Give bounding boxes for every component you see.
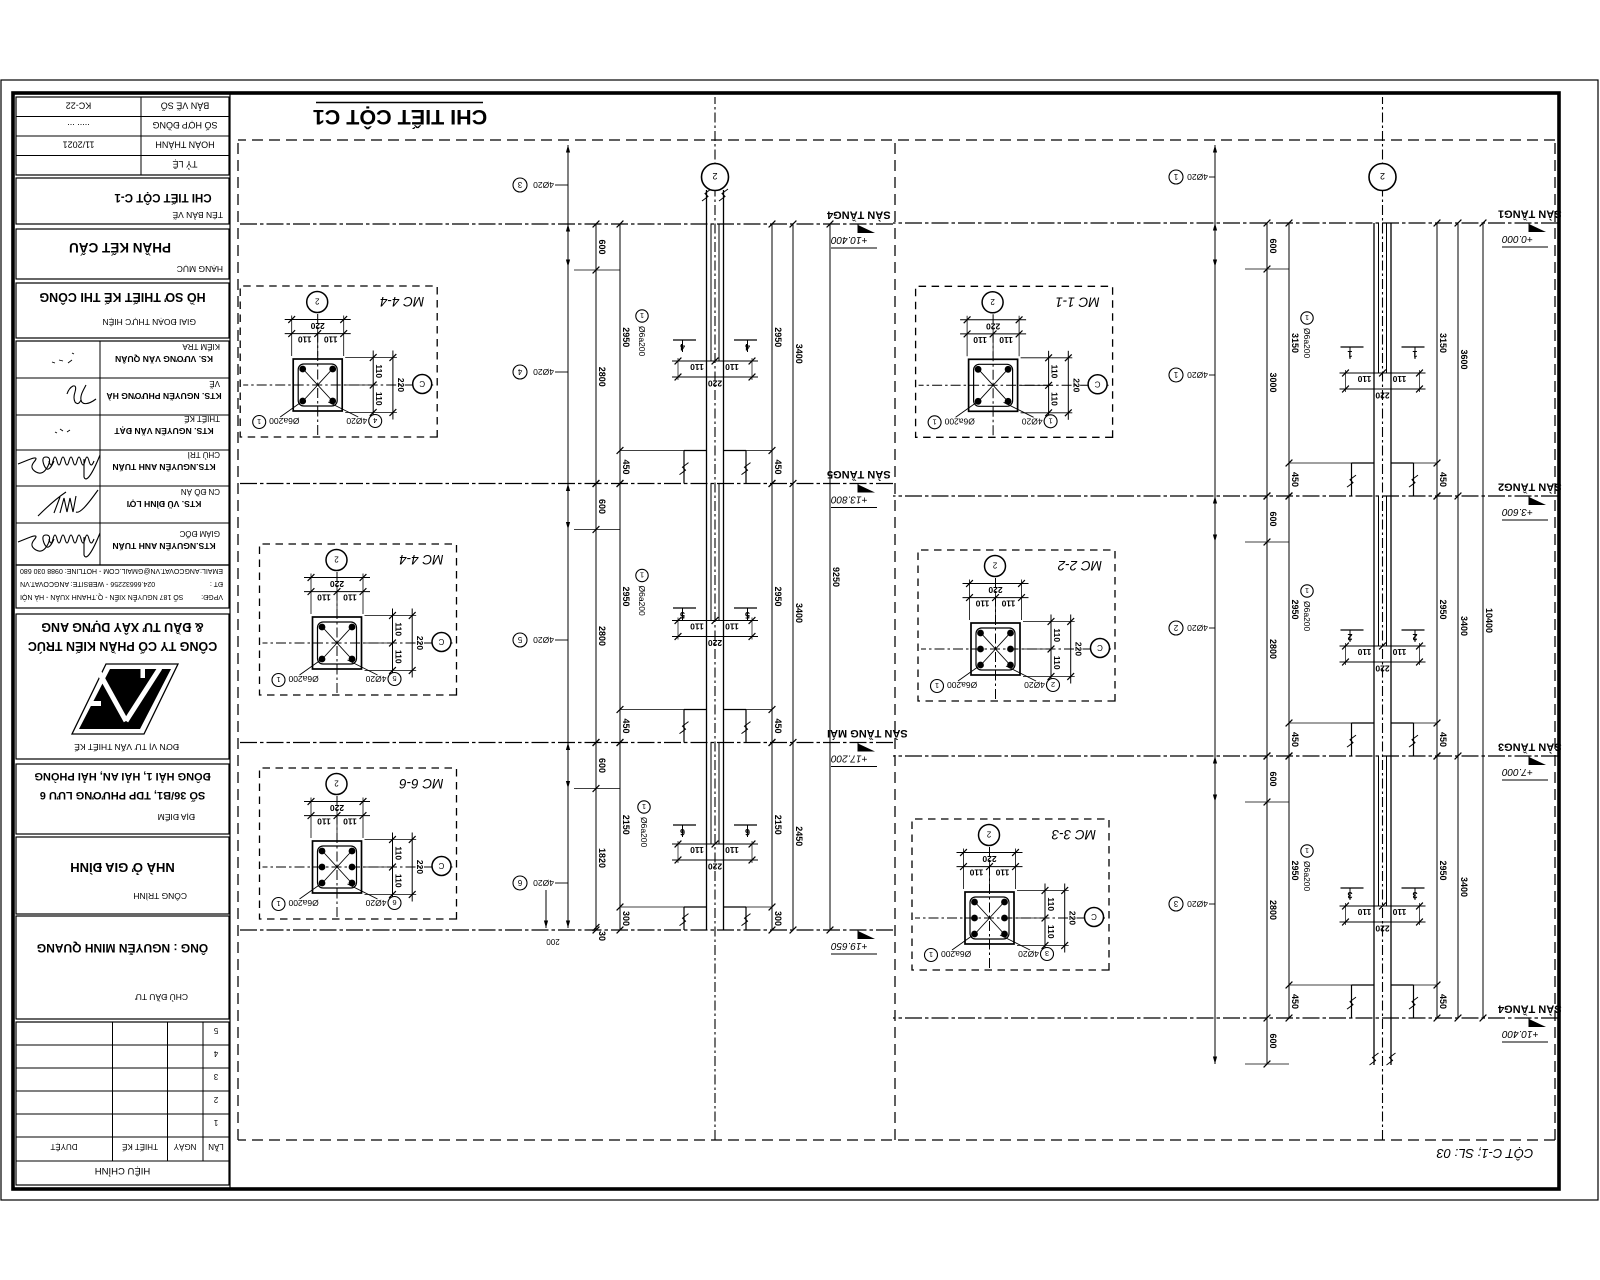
svg-text:600: 600 xyxy=(1268,238,1278,253)
svg-text:220: 220 xyxy=(330,803,344,813)
svg-text:110: 110 xyxy=(690,622,704,632)
svg-text:110: 110 xyxy=(725,845,739,855)
svg-text:4Ø20: 4Ø20 xyxy=(1022,416,1043,426)
svg-text:220: 220 xyxy=(1068,911,1078,925)
svg-text:CÔNG TY CỔ PHẦN KIẾN TRÚC: CÔNG TY CỔ PHẦN KIẾN TRÚC xyxy=(28,639,217,654)
svg-text:4Ø20: 4Ø20 xyxy=(1024,680,1045,690)
svg-text:ĐƠN VỊ TƯ VẤN THIẾT KẾ: ĐƠN VỊ TƯ VẤN THIẾT KẾ xyxy=(74,742,179,752)
svg-text:1820: 1820 xyxy=(597,848,607,868)
svg-text:1: 1 xyxy=(276,675,280,684)
svg-text:Ø6a200: Ø6a200 xyxy=(944,416,975,426)
svg-text:MC 4-4: MC 4-4 xyxy=(380,294,424,309)
svg-text:+0.000: +0.000 xyxy=(1502,233,1533,244)
svg-text:Ø6a200: Ø6a200 xyxy=(639,817,649,848)
svg-text:2150: 2150 xyxy=(621,815,631,835)
svg-text:CHỦ ĐẦU TƯ: CHỦ ĐẦU TƯ xyxy=(135,992,188,1003)
svg-text:1: 1 xyxy=(1173,172,1178,181)
svg-text:220: 220 xyxy=(1375,391,1389,401)
svg-text:110: 110 xyxy=(690,362,704,372)
svg-text:4Ø20: 4Ø20 xyxy=(533,635,554,645)
svg-text:..... ...: ..... ... xyxy=(67,122,90,132)
svg-text:110: 110 xyxy=(317,593,331,603)
svg-text:5: 5 xyxy=(517,635,522,644)
svg-text:3: 3 xyxy=(1347,890,1352,900)
svg-text:+10.400: +10.400 xyxy=(831,234,868,245)
svg-text:SÀN TẦNG5: SÀN TẦNG5 xyxy=(827,468,891,481)
svg-text:C: C xyxy=(1097,643,1103,652)
svg-text:+7.000: +7.000 xyxy=(1502,766,1533,777)
svg-text:600: 600 xyxy=(597,758,607,773)
svg-text:220: 220 xyxy=(988,585,1002,595)
svg-text:KTS. NGUYỄN PHƯƠNG HÀ: KTS. NGUYỄN PHƯƠNG HÀ xyxy=(106,391,221,402)
svg-text:2950: 2950 xyxy=(773,327,783,347)
svg-text:450: 450 xyxy=(773,718,783,733)
svg-text:2: 2 xyxy=(1173,623,1178,632)
svg-text:2: 2 xyxy=(334,779,339,788)
svg-text:110: 110 xyxy=(999,335,1013,345)
svg-text:2: 2 xyxy=(1412,632,1417,642)
svg-text:220: 220 xyxy=(310,321,324,331)
svg-text:220: 220 xyxy=(986,321,1000,331)
svg-text:220: 220 xyxy=(1375,664,1389,674)
svg-text:THIẾT KẾ: THIẾT KẾ xyxy=(184,414,220,424)
svg-text:3600: 3600 xyxy=(1459,349,1469,369)
svg-text:220: 220 xyxy=(708,862,722,872)
svg-text:BẢN VẼ SỐ: BẢN VẼ SỐ xyxy=(161,101,210,112)
svg-text:CN ĐỒ ÁN: CN ĐỒ ÁN xyxy=(181,487,220,497)
svg-text:ĐÔNG HẢI 1, HẢI AN, HẢI PHÒNG: ĐÔNG HẢI 1, HẢI AN, HẢI PHÒNG xyxy=(34,770,210,783)
svg-text:1: 1 xyxy=(640,311,644,320)
svg-text:SÀN TẦNG3: SÀN TẦNG3 xyxy=(1498,741,1562,754)
svg-text:110: 110 xyxy=(394,846,404,860)
svg-text:600: 600 xyxy=(597,499,607,514)
svg-text:KIỂM TRA: KIỂM TRA xyxy=(182,342,220,351)
svg-text:GIAI ĐOẠN THỰC HIỆN: GIAI ĐOẠN THỰC HIỆN xyxy=(102,317,196,327)
svg-text:220: 220 xyxy=(1375,924,1389,934)
svg-text:PHẦN KẾT CẤU: PHẦN KẾT CẤU xyxy=(69,240,171,255)
svg-text:1: 1 xyxy=(1412,349,1417,359)
svg-text:EMAIL:: EMAIL: xyxy=(200,567,223,574)
svg-text:NGÀY: NGÀY xyxy=(173,1142,196,1151)
svg-text:600: 600 xyxy=(597,239,607,254)
svg-text:1: 1 xyxy=(935,681,939,690)
svg-text:Ø6a200: Ø6a200 xyxy=(637,586,647,617)
svg-text:110: 110 xyxy=(690,845,704,855)
svg-text:3: 3 xyxy=(1173,899,1178,908)
svg-text:2950: 2950 xyxy=(621,586,631,606)
svg-text:C: C xyxy=(438,637,444,646)
svg-text:Ø6a200: Ø6a200 xyxy=(637,326,647,357)
svg-text:110: 110 xyxy=(1392,374,1406,384)
svg-text:KC-22: KC-22 xyxy=(66,101,92,111)
svg-text:3: 3 xyxy=(213,1072,218,1081)
svg-text:200: 200 xyxy=(546,937,560,946)
svg-text:600: 600 xyxy=(1268,511,1278,526)
svg-text:1: 1 xyxy=(1305,313,1309,322)
svg-text:SÀN TẦNG MÁI: SÀN TẦNG MÁI xyxy=(827,727,908,740)
svg-text:1: 1 xyxy=(640,571,644,580)
svg-text:1: 1 xyxy=(276,899,280,908)
svg-text:110: 110 xyxy=(1046,897,1056,911)
svg-text:KTS. VŨ ĐÌNH LỢI: KTS. VŨ ĐÌNH LỢI xyxy=(127,499,202,509)
svg-text:+19.650: +19.650 xyxy=(831,940,868,951)
svg-text:C: C xyxy=(438,861,444,870)
svg-text:1: 1 xyxy=(929,950,933,959)
svg-text:1: 1 xyxy=(213,1118,218,1127)
svg-text:110: 110 xyxy=(973,335,987,345)
svg-text:KTS.NGUYỄN ANH TUẤN: KTS.NGUYỄN ANH TUẤN xyxy=(112,462,215,473)
svg-text:C: C xyxy=(419,379,425,388)
svg-text:4Ø20: 4Ø20 xyxy=(365,898,386,908)
svg-text:LẦN: LẦN xyxy=(208,1142,224,1152)
svg-text:4Ø20: 4Ø20 xyxy=(533,367,554,377)
svg-text:MC 2-2: MC 2-2 xyxy=(1057,558,1102,573)
svg-text:Ø6a200: Ø6a200 xyxy=(1302,328,1312,359)
svg-text:110: 110 xyxy=(1392,907,1406,917)
svg-text:Ø6a200: Ø6a200 xyxy=(288,898,319,908)
svg-text:HIỆU CHỈNH: HIỆU CHỈNH xyxy=(95,1165,151,1177)
svg-text:220: 220 xyxy=(708,638,722,648)
svg-text:600: 600 xyxy=(1268,771,1278,786)
svg-text:110: 110 xyxy=(1046,925,1056,939)
svg-text:4Ø20: 4Ø20 xyxy=(1018,949,1039,959)
svg-text:110: 110 xyxy=(1050,365,1060,379)
svg-text:024.66632256 - WEBSITE: ANGCOV: 024.66632256 - WEBSITE: ANGCOVAT.VN xyxy=(20,580,155,587)
svg-text:+17.200: +17.200 xyxy=(831,753,868,764)
svg-text:5: 5 xyxy=(213,1026,218,1035)
svg-text:VẼ: VẼ xyxy=(209,379,220,388)
svg-text:450: 450 xyxy=(1290,732,1300,747)
svg-text:3400: 3400 xyxy=(794,603,804,623)
svg-text:3: 3 xyxy=(517,180,522,189)
svg-text:110: 110 xyxy=(1052,628,1062,642)
svg-text:2150: 2150 xyxy=(773,815,783,835)
svg-text:THIẾT KẾ: THIẾT KẾ xyxy=(122,1142,158,1152)
svg-text:SÀN TẦNG2: SÀN TẦNG2 xyxy=(1498,481,1562,494)
svg-text:MC 1-1: MC 1-1 xyxy=(1055,294,1099,309)
svg-text:4: 4 xyxy=(680,342,685,352)
svg-text:ÔNG : NGUYỄN MINH QUANG: ÔNG : NGUYỄN MINH QUANG xyxy=(37,941,208,956)
svg-text:110: 110 xyxy=(975,599,989,609)
svg-text:KTS.NGUYỄN ANH TUẤN: KTS.NGUYỄN ANH TUẤN xyxy=(112,541,215,552)
svg-text:2950: 2950 xyxy=(1290,599,1300,619)
svg-text:4: 4 xyxy=(373,416,377,425)
svg-text:110: 110 xyxy=(725,622,739,632)
svg-text:3400: 3400 xyxy=(1459,616,1469,636)
svg-text:2950: 2950 xyxy=(621,327,631,347)
svg-text:SÀN TẦNG4: SÀN TẦNG4 xyxy=(826,209,890,222)
svg-text:2: 2 xyxy=(990,297,995,306)
svg-text:ĐT :: ĐT : xyxy=(210,580,223,587)
svg-text:DUYỆT: DUYỆT xyxy=(50,1142,77,1151)
svg-text:SỐ HỢP ĐỒNG: SỐ HỢP ĐỒNG xyxy=(152,120,217,131)
svg-text:2: 2 xyxy=(314,297,319,306)
svg-text:KTS. NGUYỄN VĂN ĐẠT: KTS. NGUYỄN VĂN ĐẠT xyxy=(114,426,214,437)
svg-text:2800: 2800 xyxy=(597,367,607,387)
svg-text:& ĐẦU TƯ XÂY DỰNG ANG: & ĐẦU TƯ XÂY DỰNG ANG xyxy=(41,620,203,635)
svg-text:110: 110 xyxy=(343,593,357,603)
svg-text:C: C xyxy=(1091,912,1097,921)
svg-text:3: 3 xyxy=(1045,949,1049,958)
svg-text:1: 1 xyxy=(1305,586,1309,595)
svg-text:CHỦ TRÌ: CHỦ TRÌ xyxy=(188,450,220,459)
svg-text:1: 1 xyxy=(257,417,261,426)
svg-text:110: 110 xyxy=(969,868,983,878)
svg-text:110: 110 xyxy=(394,622,404,636)
svg-text:NHÀ Ở GIA ĐÌNH: NHÀ Ở GIA ĐÌNH xyxy=(70,860,175,875)
svg-text:110: 110 xyxy=(374,364,384,378)
svg-text:110: 110 xyxy=(995,868,1009,878)
svg-text:2800: 2800 xyxy=(597,626,607,646)
svg-text:4Ø20: 4Ø20 xyxy=(346,416,367,426)
svg-text:2: 2 xyxy=(1347,632,1352,642)
svg-text:3400: 3400 xyxy=(1459,877,1469,897)
svg-text:450: 450 xyxy=(621,718,631,733)
svg-text:CHI TIẾT CỘT C-1: CHI TIẾT CỘT C-1 xyxy=(114,191,212,204)
svg-text:+13.800: +13.800 xyxy=(831,494,868,505)
svg-text:4: 4 xyxy=(213,1049,218,1058)
svg-text:110: 110 xyxy=(725,362,739,372)
svg-text:C: C xyxy=(1094,379,1100,388)
svg-text:ĐỊA ĐIỂM: ĐỊA ĐIỂM xyxy=(158,812,195,823)
svg-text:220: 220 xyxy=(415,860,425,874)
svg-text:220: 220 xyxy=(1074,642,1084,656)
svg-text:2450: 2450 xyxy=(794,826,804,846)
svg-text:3000: 3000 xyxy=(1268,372,1278,392)
svg-text:2950: 2950 xyxy=(1438,599,1448,619)
svg-text:110: 110 xyxy=(394,874,404,888)
svg-text:Ø6a200: Ø6a200 xyxy=(288,674,319,684)
svg-text:450: 450 xyxy=(621,459,631,474)
svg-text:220: 220 xyxy=(415,636,425,650)
svg-text:CHI TIẾT CỘT C1: CHI TIẾT CỘT C1 xyxy=(313,105,487,130)
svg-text:2: 2 xyxy=(986,830,991,839)
svg-text:110: 110 xyxy=(324,335,338,345)
svg-text:GIÁM ĐỐC: GIÁM ĐỐC xyxy=(179,529,220,539)
svg-text:110: 110 xyxy=(1392,647,1406,657)
svg-text:10400: 10400 xyxy=(1484,608,1494,633)
svg-text:6: 6 xyxy=(392,898,396,907)
svg-text:3400: 3400 xyxy=(794,344,804,364)
svg-text:5: 5 xyxy=(680,610,685,620)
svg-text:2950: 2950 xyxy=(773,586,783,606)
svg-text:110: 110 xyxy=(1357,647,1371,657)
svg-text:4Ø20: 4Ø20 xyxy=(533,180,554,190)
svg-text:220: 220 xyxy=(982,854,996,864)
svg-text:220: 220 xyxy=(1071,378,1081,392)
svg-text:3: 3 xyxy=(1412,890,1417,900)
svg-text:110: 110 xyxy=(374,392,384,406)
svg-text:1: 1 xyxy=(1305,846,1309,855)
svg-text:450: 450 xyxy=(1438,732,1448,747)
svg-text:4Ø20: 4Ø20 xyxy=(1187,899,1208,909)
svg-text:1: 1 xyxy=(933,417,937,426)
svg-text:110: 110 xyxy=(1357,374,1371,384)
svg-text:1: 1 xyxy=(642,802,646,811)
svg-text:450: 450 xyxy=(1290,472,1300,487)
svg-text:4Ø20: 4Ø20 xyxy=(1187,623,1208,633)
svg-text:11/2021: 11/2021 xyxy=(63,140,95,150)
svg-text:6: 6 xyxy=(745,827,750,837)
svg-text:4: 4 xyxy=(745,342,750,352)
svg-text:6: 6 xyxy=(517,878,522,887)
svg-text:600: 600 xyxy=(1268,1033,1278,1048)
svg-text:220: 220 xyxy=(396,378,406,392)
svg-text:1: 1 xyxy=(1347,349,1352,359)
svg-text:CỘT C-1; SL: 03: CỘT C-1; SL: 03 xyxy=(1436,1146,1534,1161)
svg-text:4Ø20: 4Ø20 xyxy=(1187,370,1208,380)
svg-text:ANGCOVAT.VN@GMAIL.COM - HOTLIN: ANGCOVAT.VN@GMAIL.COM - HOTLINE: 0988 03… xyxy=(20,567,200,574)
svg-text:SÀN TẦNG4: SÀN TẦNG4 xyxy=(1497,1003,1561,1016)
svg-text:+10.400: +10.400 xyxy=(1502,1028,1539,1039)
svg-text:1: 1 xyxy=(1173,370,1178,379)
svg-text:2: 2 xyxy=(992,561,997,570)
svg-text:300: 300 xyxy=(773,911,783,926)
svg-text:2950: 2950 xyxy=(1290,860,1300,880)
svg-text:450: 450 xyxy=(1438,994,1448,1009)
svg-text:6: 6 xyxy=(680,827,685,837)
svg-text:220: 220 xyxy=(708,379,722,389)
svg-text:MC 6-6: MC 6-6 xyxy=(399,776,444,791)
svg-text:2800: 2800 xyxy=(1268,639,1278,659)
svg-text:Ø6a200: Ø6a200 xyxy=(941,949,972,959)
svg-text:Ø6a200: Ø6a200 xyxy=(1302,861,1312,892)
svg-text:CÔNG TRÌNH: CÔNG TRÌNH xyxy=(133,891,187,901)
svg-text:HOÀN THÀNH: HOÀN THÀNH xyxy=(155,140,214,150)
svg-text:2: 2 xyxy=(712,171,717,181)
svg-text:110: 110 xyxy=(1001,599,1015,609)
svg-text:5: 5 xyxy=(392,674,396,683)
svg-text:110: 110 xyxy=(317,817,331,827)
svg-text:110: 110 xyxy=(1357,907,1371,917)
svg-text:300: 300 xyxy=(621,911,631,926)
svg-text:450: 450 xyxy=(1290,994,1300,1009)
svg-text:450: 450 xyxy=(773,459,783,474)
svg-text:TỶ LỆ: TỶ LỆ xyxy=(172,159,197,170)
svg-text:2950: 2950 xyxy=(1438,860,1448,880)
svg-text:110: 110 xyxy=(1050,392,1060,406)
svg-text:VPGĐ:: VPGĐ: xyxy=(201,593,223,600)
svg-text:2: 2 xyxy=(213,1095,218,1104)
svg-text:4Ø20: 4Ø20 xyxy=(533,878,554,888)
svg-text:110: 110 xyxy=(343,817,357,827)
svg-text:4Ø20: 4Ø20 xyxy=(1187,172,1208,182)
svg-text:5: 5 xyxy=(745,610,750,620)
svg-text:2800: 2800 xyxy=(1268,900,1278,920)
svg-text:220: 220 xyxy=(330,579,344,589)
svg-text:110: 110 xyxy=(394,650,404,664)
svg-text:3150: 3150 xyxy=(1290,333,1300,353)
svg-text:4: 4 xyxy=(517,367,522,376)
svg-text:110: 110 xyxy=(298,335,312,345)
svg-text:450: 450 xyxy=(1438,472,1448,487)
svg-text:Ø6a200: Ø6a200 xyxy=(269,416,300,426)
svg-text:SỐ 36/B1, TDP PHƯƠNG LƯU 6: SỐ 36/B1, TDP PHƯƠNG LƯU 6 xyxy=(40,789,206,803)
svg-text:MC 3-3: MC 3-3 xyxy=(1051,827,1096,842)
svg-text:HỒ SƠ THIẾT KẾ THI CÔNG: HỒ SƠ THIẾT KẾ THI CÔNG xyxy=(39,290,205,305)
svg-text:110: 110 xyxy=(1052,656,1062,670)
svg-text:+3.600: +3.600 xyxy=(1502,506,1533,517)
svg-text:2: 2 xyxy=(1380,171,1385,181)
svg-text:2: 2 xyxy=(334,555,339,564)
svg-text:1: 1 xyxy=(1049,416,1053,425)
svg-text:30: 30 xyxy=(597,931,607,941)
svg-text:3150: 3150 xyxy=(1438,333,1448,353)
svg-text:Ø6a200: Ø6a200 xyxy=(1302,601,1312,632)
svg-text:KS. VƯƠNG VĂN QUÂN: KS. VƯƠNG VĂN QUÂN xyxy=(115,354,213,365)
svg-text:TÊN BẢN VẼ: TÊN BẢN VẼ xyxy=(172,210,223,221)
svg-text:MC 4-4: MC 4-4 xyxy=(399,552,443,567)
svg-text:HẠNG MỤC: HẠNG MỤC xyxy=(177,264,223,274)
svg-text:4Ø20: 4Ø20 xyxy=(365,674,386,684)
svg-text:Ø6a200: Ø6a200 xyxy=(947,680,978,690)
svg-text:2: 2 xyxy=(1051,680,1055,689)
svg-text:SÀN TẦNG1: SÀN TẦNG1 xyxy=(1498,208,1562,221)
svg-text:9250: 9250 xyxy=(831,567,841,587)
